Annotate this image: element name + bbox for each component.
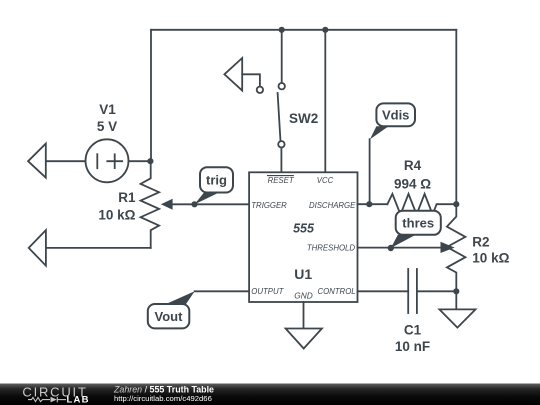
svg-text:10 kΩ: 10 kΩ xyxy=(98,207,135,222)
node C1 / R2 / ground junction xyxy=(453,288,459,294)
wire switch to RESET pin xyxy=(280,148,282,173)
svg-text:R1: R1 xyxy=(118,190,136,205)
wiper arrow R2 xyxy=(441,242,455,253)
flag Vout xyxy=(148,291,195,328)
svg-text:U1: U1 xyxy=(294,266,312,282)
flag trig xyxy=(195,167,234,204)
wire DISCHARGE pin xyxy=(358,203,388,205)
wire junction to ground xyxy=(455,291,457,309)
ground left of V1 xyxy=(28,144,46,178)
svg-text:SW2: SW2 xyxy=(289,111,318,126)
svg-text:Vdis: Vdis xyxy=(382,108,409,123)
wire C1 to junction xyxy=(417,290,456,292)
svg-text:LAB: LAB xyxy=(67,395,90,405)
wiper arrow R1 xyxy=(161,199,195,210)
svg-text:R2: R2 xyxy=(472,234,489,249)
potentiometer R1 xyxy=(141,161,160,248)
svg-text:V1: V1 xyxy=(99,102,116,117)
resistor R4 xyxy=(387,194,456,215)
svg-text:trig: trig xyxy=(206,173,227,188)
wire OUTPUT pin xyxy=(195,290,249,292)
svg-text:10 kΩ: 10 kΩ xyxy=(472,250,509,265)
wire VCC pin xyxy=(324,30,326,173)
svg-text:Vout: Vout xyxy=(155,309,184,324)
pin label RESET with overline xyxy=(268,176,295,186)
node thres junction xyxy=(388,245,394,251)
footer bar xyxy=(0,384,540,405)
wire GND pin xyxy=(303,302,305,329)
svg-text:10 nF: 10 nF xyxy=(395,339,430,354)
wire V1 left xyxy=(46,160,86,162)
svg-text:thres: thres xyxy=(402,216,434,231)
IC U1 555 box xyxy=(249,172,357,302)
node junction top rail to switch xyxy=(279,27,285,33)
svg-text:TRIGGER: TRIGGER xyxy=(251,201,287,210)
flag Vdis xyxy=(370,103,415,139)
svg-text:THRESHOLD: THRESHOLD xyxy=(307,244,355,253)
svg-text:Zahren / 555 Truth Table: Zahren / 555 Truth Table xyxy=(113,384,214,394)
wire THRESHOLD pin xyxy=(358,247,443,249)
node discharge junction xyxy=(366,201,372,207)
wire right rail xyxy=(455,30,457,204)
ground below GND xyxy=(286,329,322,349)
wire switch to top rail xyxy=(281,30,283,83)
svg-text:OUTPUT: OUTPUT xyxy=(251,287,284,296)
node junction top rail to VCC xyxy=(322,27,328,33)
wire R1 bottom to ground xyxy=(46,247,151,249)
node trig junction xyxy=(191,201,197,207)
wire V1 right xyxy=(129,160,152,162)
svg-text:555: 555 xyxy=(293,222,315,236)
wire CONTROL pin xyxy=(358,290,409,292)
svg-text:R4: R4 xyxy=(404,158,422,173)
switch SW2 xyxy=(278,83,285,148)
potentiometer R2 xyxy=(447,204,466,291)
svg-text:C1: C1 xyxy=(404,323,422,338)
wire trigger xyxy=(195,203,250,205)
svg-text:CONTROL: CONTROL xyxy=(317,287,355,296)
node V1 / R1 junction xyxy=(147,158,153,164)
wire left rail xyxy=(150,30,152,161)
svg-text:DISCHARGE: DISCHARGE xyxy=(309,201,356,210)
svg-text:5 V: 5 V xyxy=(97,119,117,134)
svg-text:VCC: VCC xyxy=(317,176,334,185)
voltage source V1 xyxy=(86,139,129,182)
ground bottom left xyxy=(29,230,46,266)
wire Vdis flag stem xyxy=(369,139,371,204)
svg-text:RESET: RESET xyxy=(268,176,295,185)
wire top rail xyxy=(151,29,456,31)
svg-text:994 Ω: 994 Ω xyxy=(394,176,431,191)
ground bottom right xyxy=(439,309,475,327)
flag thres xyxy=(391,211,441,248)
svg-text:GND: GND xyxy=(294,291,312,301)
capacitor C1 xyxy=(408,269,417,313)
logo schematic resistor and diode xyxy=(28,397,66,403)
svg-text:http://circuitlab.com/c492d66: http://circuitlab.com/c492d66 xyxy=(114,394,212,403)
ground (switch throw terminal) xyxy=(224,58,263,93)
node R4 / right rail junction xyxy=(453,201,459,207)
